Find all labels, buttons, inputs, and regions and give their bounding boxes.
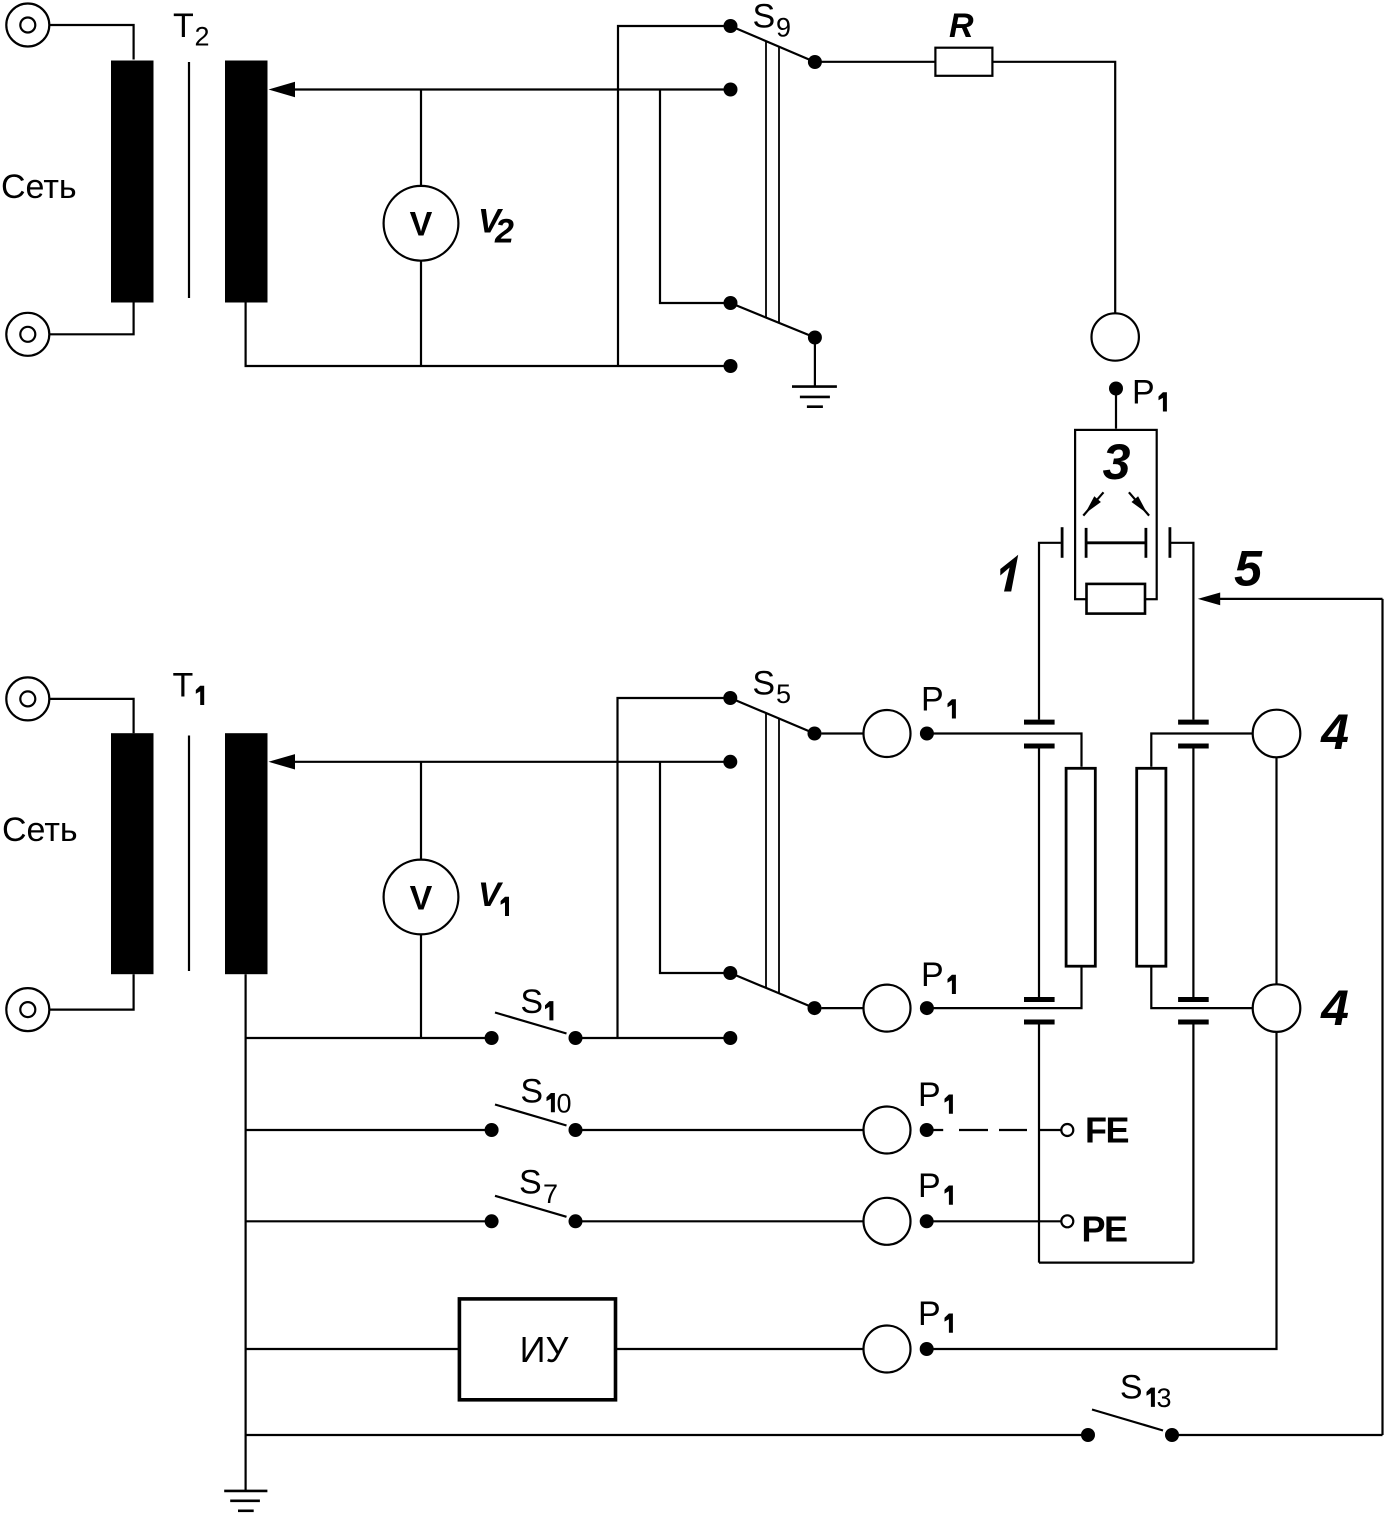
ground at S9 <box>792 344 837 407</box>
label 1 <box>1000 555 1018 592</box>
switch S5 contact 1 <box>723 691 737 705</box>
switch S9 pole upper <box>808 55 822 69</box>
coupling capacitor upper-left <box>1024 722 1055 746</box>
svg-text:T: T <box>173 667 194 705</box>
wire voltmeter V1 bottom <box>420 934 422 1038</box>
switch S9 gang linkage <box>766 41 779 323</box>
IU row wire right <box>616 1348 864 1350</box>
svg-text:ИУ: ИУ <box>520 1329 570 1370</box>
wire S5 contact 3 branch <box>660 762 730 973</box>
PE terminal <box>1061 1215 1073 1227</box>
svg-text:5: 5 <box>776 679 791 709</box>
svg-text:S: S <box>519 1163 542 1201</box>
wire X4 to T1 primary <box>50 974 134 1009</box>
switch S10 contact right <box>569 1123 583 1137</box>
svg-text:V: V <box>410 879 433 917</box>
wire T1 wiper to S5 contact 2 <box>291 761 730 763</box>
svg-text:T: T <box>173 7 194 45</box>
wire T1 secondary bottom to S1 and S5 contact 4 <box>246 974 731 1038</box>
luminaire enclosure bottom <box>1039 1261 1193 1263</box>
switch S5 contact 3 <box>723 966 737 980</box>
switch S5 contact 4 <box>723 1031 737 1045</box>
svg-text:S: S <box>752 665 775 703</box>
P1 jack S5 upper <box>864 710 911 757</box>
svg-text:4: 4 <box>1320 980 1349 1036</box>
svg-text:3: 3 <box>1103 434 1131 490</box>
svg-text:R: R <box>949 7 974 45</box>
svg-text:0: 0 <box>557 1088 572 1118</box>
cap arrow right <box>1129 492 1149 515</box>
wire voltmeter V2 bottom <box>420 261 422 366</box>
switch S9 contact 4 <box>724 359 738 373</box>
S13 row wire right <box>1172 1434 1383 1436</box>
S7 row wire left <box>246 1220 492 1222</box>
S13 row wire left <box>246 1434 1088 1436</box>
resistor R <box>935 48 992 76</box>
wire S5 pole to P1 jack upper <box>822 732 864 734</box>
svg-text:P: P <box>918 1167 941 1205</box>
transformer T1 core <box>188 736 190 972</box>
terminal X3 <box>6 677 49 720</box>
wire left wall mid <box>1038 749 1040 998</box>
svg-text:9: 9 <box>776 12 791 42</box>
P1 tip IU <box>920 1342 934 1356</box>
switch S1 blade <box>495 1013 567 1034</box>
coupling capacitor lower-right <box>1178 1000 1209 1023</box>
terminal X4 <box>6 988 49 1031</box>
S10 row wire right <box>576 1129 864 1131</box>
switch S1 contact right <box>569 1031 583 1045</box>
probe tip P1 top <box>1109 382 1123 396</box>
wire S9 contact 3 branch <box>660 90 731 304</box>
switch S5 pole lower <box>808 1001 822 1015</box>
transformer T1 primary winding <box>111 733 154 974</box>
wire voltmeter V1 top <box>420 762 422 860</box>
P1 jack S10 <box>864 1107 911 1154</box>
wire left wall lower <box>1038 1025 1040 1263</box>
wire right wall mid <box>1192 749 1194 998</box>
switch S1 contact left <box>485 1031 499 1045</box>
lamp sleeve left <box>1066 768 1095 966</box>
voltmeter V2 <box>384 186 459 261</box>
switch S5 pole upper <box>808 727 822 741</box>
switch S7 contact left <box>485 1214 499 1228</box>
switch S13 contact left <box>1081 1428 1095 1442</box>
wire probe tip to lamp cap <box>1115 395 1117 429</box>
wire X1 to T2 primary <box>50 25 134 60</box>
switch S7 contact right <box>569 1214 583 1228</box>
starter resistor in cap <box>1087 584 1146 614</box>
probe 4 upper <box>1253 710 1301 758</box>
svg-text:V: V <box>478 876 504 914</box>
arrowhead at T1 secondary <box>269 754 296 769</box>
cap arrow left <box>1083 492 1103 515</box>
lamp sleeve right <box>1137 768 1166 966</box>
switch S10 contact left <box>485 1123 499 1137</box>
wire P1 to PE <box>933 1220 1061 1222</box>
wire sleeve right top to probe 4 upper <box>1151 734 1252 767</box>
svg-text:FE: FE <box>1085 1110 1128 1151</box>
P1 tip S5 lower <box>920 1001 934 1015</box>
pointer arrow 5 <box>1198 593 1383 606</box>
switch S9 pole lower <box>808 331 822 345</box>
switch S7 blade <box>495 1196 567 1217</box>
svg-text:P: P <box>918 1295 941 1333</box>
switch S5 gang linkage <box>766 713 779 993</box>
svg-text:P: P <box>921 681 944 719</box>
wire X2 to T2 primary <box>50 303 134 335</box>
wire right wall lower <box>1192 1025 1194 1263</box>
wire S9 pole to resistor R <box>822 61 936 63</box>
wire node 5 <box>1171 543 1193 720</box>
svg-text:S: S <box>520 1072 543 1110</box>
svg-text:3: 3 <box>1157 1383 1172 1413</box>
svg-text:V: V <box>410 206 433 244</box>
svg-text:P: P <box>921 956 944 994</box>
P1 tip S10 <box>920 1123 934 1137</box>
svg-text:S: S <box>1120 1368 1143 1406</box>
P1 tip S7 <box>920 1214 934 1228</box>
wire S5 pole2 to P1 jack lower <box>822 1007 864 1009</box>
wire node 1 <box>1039 543 1061 720</box>
holder contact right <box>1169 527 1172 558</box>
switch S13 blade <box>1092 1410 1163 1431</box>
switch S9 blade upper <box>731 26 815 62</box>
S10 row wire left <box>246 1129 492 1131</box>
holder contact left <box>1061 527 1064 558</box>
wire probe 4 upper to lower <box>1275 757 1277 984</box>
wire probe 4 lower to IU row <box>933 1032 1276 1349</box>
P1 tip S5 upper <box>920 727 934 741</box>
wire S9 feeder vertical <box>618 26 731 366</box>
lamp cap box element 3 <box>1075 430 1157 599</box>
FE terminal <box>1061 1124 1073 1136</box>
lamp pins and body <box>1086 528 1146 558</box>
svg-text:2: 2 <box>494 213 514 251</box>
transformer T2 core <box>188 62 190 298</box>
svg-text:7: 7 <box>543 1179 558 1209</box>
wire S5 feeder vertical <box>618 698 731 1038</box>
svg-text:4: 4 <box>1320 704 1349 760</box>
terminal X2 <box>6 313 49 356</box>
dashed link P1 to FE <box>933 1129 1061 1131</box>
transformer T2 primary winding <box>111 61 154 303</box>
P1 jack IU <box>864 1326 911 1373</box>
wire X3 to T1 primary <box>50 699 134 733</box>
svg-text:5: 5 <box>1234 541 1263 597</box>
coupling capacitor lower-left <box>1024 1000 1055 1023</box>
svg-text:Сеть: Сеть <box>1 168 77 206</box>
svg-text:2: 2 <box>195 22 210 52</box>
coupling capacitor upper-right <box>1178 722 1209 746</box>
wire voltmeter V2 top <box>420 90 422 186</box>
switch S9 contact 1 <box>724 19 738 33</box>
wire T2 secondary bottom to S9 contact 4 <box>246 303 731 367</box>
wire P1 tip to sleeve left top <box>933 734 1081 767</box>
probe 4 lower <box>1253 984 1301 1032</box>
svg-text:P: P <box>1132 374 1155 412</box>
S7 row wire right <box>576 1220 864 1222</box>
transformer T1 secondary winding <box>225 733 268 974</box>
wire R to probe jack top <box>992 62 1115 313</box>
P1 jack S5 lower <box>864 985 911 1032</box>
main ground <box>224 1491 267 1511</box>
svg-text:PE: PE <box>1082 1209 1128 1250</box>
wire S13 return riser <box>1381 599 1383 1435</box>
probe jack circle top <box>1092 313 1139 360</box>
switch S13 contact right <box>1165 1428 1179 1442</box>
svg-text:P: P <box>918 1076 941 1114</box>
IU row wire left <box>246 1348 460 1350</box>
svg-text:S: S <box>753 0 776 36</box>
arrowhead at T2 secondary <box>269 82 296 97</box>
main earth trunk <box>245 1038 247 1490</box>
wire sleeve left bottom to P1 tip lower <box>933 968 1081 1009</box>
switch S9 blade lower <box>731 303 815 338</box>
switch S10 blade <box>495 1105 567 1126</box>
transformer T2 secondary winding <box>225 61 268 303</box>
voltmeter V1 <box>384 860 459 935</box>
wire sleeve right bottom to probe 4 lower <box>1151 968 1252 1009</box>
P1 jack S7 <box>864 1198 911 1245</box>
switch S5 blade upper <box>730 698 814 734</box>
switch S5 contact 2 <box>723 755 737 769</box>
terminal X1 <box>6 4 49 47</box>
measuring device IU box <box>459 1299 615 1400</box>
svg-text:S: S <box>520 983 543 1021</box>
wire T2 wiper to S9 contact 2 <box>291 88 731 90</box>
switch S9 contact 3 <box>724 296 738 310</box>
switch S5 blade lower <box>730 973 814 1008</box>
svg-text:Сеть: Сеть <box>2 811 78 849</box>
switch S9 contact 2 <box>724 83 738 97</box>
